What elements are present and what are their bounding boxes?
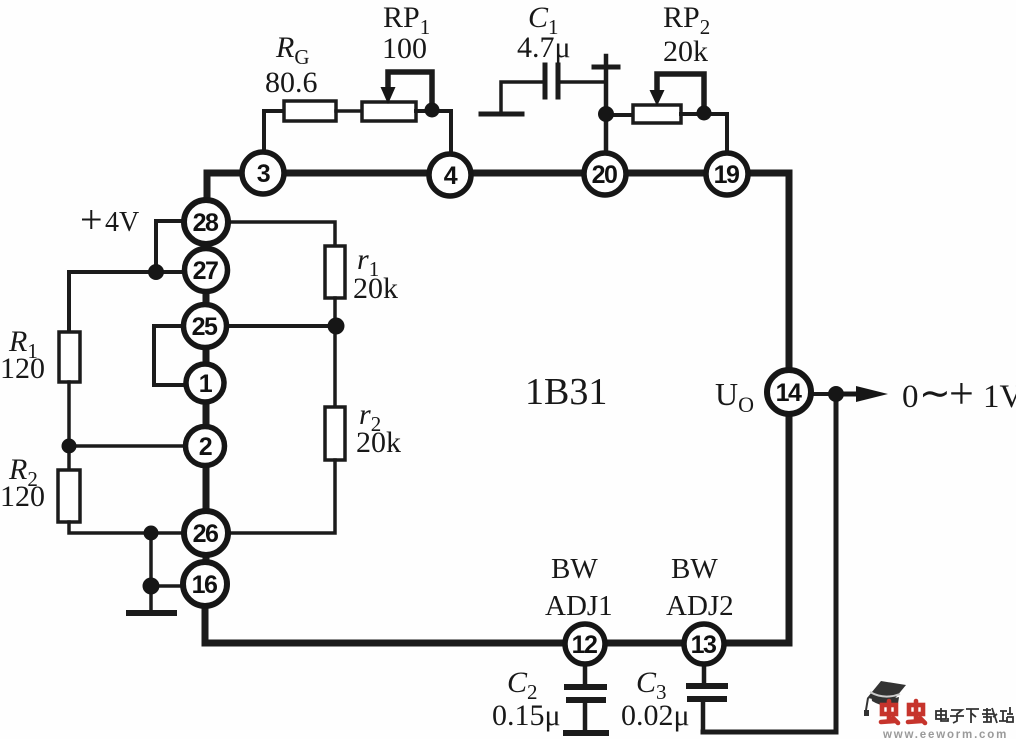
svg-text:2: 2 <box>199 433 212 461</box>
svg-text:+: + <box>80 197 103 242</box>
svg-text:4V: 4V <box>105 207 139 238</box>
pin 27 <box>185 249 228 292</box>
wire pin27 left to R1 top <box>69 272 190 332</box>
svg-text:www.eeworm.com: www.eeworm.com <box>882 729 1008 739</box>
svg-text:0.02μ: 0.02μ <box>621 699 690 732</box>
svg-text:UO: UO <box>715 376 754 417</box>
svg-text:80.6: 80.6 <box>265 66 318 99</box>
wire pin28 left to +4V junction <box>156 221 188 268</box>
svg-text:3: 3 <box>257 160 270 188</box>
svg-text:20: 20 <box>592 161 617 189</box>
svg-text:4: 4 <box>444 162 458 190</box>
svg-text:26: 26 <box>193 520 218 548</box>
svg-text:120: 120 <box>0 352 45 385</box>
svg-text:0.15μ: 0.15μ <box>492 699 561 732</box>
pin 1 <box>186 364 224 402</box>
capacitor C2 0.15u top lead <box>583 663 588 685</box>
node RP1 right <box>425 103 440 118</box>
wire pin28 right to r1 top <box>226 222 335 246</box>
pin 28 <box>184 200 228 244</box>
wire junction down to ground node <box>149 533 153 586</box>
resistor RG 80.6 <box>284 101 336 121</box>
potentiometer RP2 20k body <box>633 105 681 123</box>
capacitor C3 0.02u top lead <box>702 663 707 684</box>
wire node to R2 top <box>67 446 71 470</box>
svg-text:RP2: RP2 <box>663 1 710 39</box>
wire left column bus 28-27-25-1-2-26-16 <box>203 205 210 600</box>
wire r1 bottom to node to r2 top <box>333 298 337 407</box>
svg-text:28: 28 <box>193 209 219 237</box>
capacitor C1 input bar <box>481 112 522 117</box>
potentiometer RP1 100 body <box>362 102 416 121</box>
wire RP1 wiper loop <box>388 72 432 108</box>
wire top bus pins 3-4-20-19 <box>207 173 789 215</box>
resistor R2 120 <box>58 470 80 522</box>
pin 26 <box>184 511 228 555</box>
svg-text:0: 0 <box>902 379 919 415</box>
svg-text:12: 12 <box>572 631 597 659</box>
wire right vertical bus 19 to 14 to 13 <box>205 173 789 643</box>
wire r2 bottom to pin26 <box>226 460 335 533</box>
wire C2 bottom lead <box>583 700 588 731</box>
ground bar C2 <box>566 730 606 736</box>
capacitor C2 plates <box>567 684 604 690</box>
capacitor C1 plates <box>543 65 548 97</box>
watermark site name glyphs <box>936 707 1013 723</box>
wire RG to RP1 <box>336 109 362 113</box>
node R2/pin26 <box>144 526 159 541</box>
pin 19 <box>706 153 748 195</box>
pin number labels <box>192 160 802 659</box>
arrow output <box>856 386 888 402</box>
wire pin25-pin1 short loop <box>154 326 188 385</box>
node +4V junction <box>148 264 164 280</box>
wire RP2 right to pin19 <box>681 114 727 155</box>
svg-text:20k: 20k <box>353 272 398 305</box>
wire RP2 wiper loop <box>657 74 704 110</box>
wire R1 bottom to node <box>67 382 71 446</box>
resistor r1 20k <box>325 246 345 298</box>
wire output feedback down <box>703 394 836 732</box>
pin 13 <box>684 624 724 664</box>
wire node to RP2 left <box>606 113 633 117</box>
svg-text:+: + <box>949 369 974 418</box>
svg-text:16: 16 <box>192 571 217 599</box>
wire node to pin2 <box>69 444 188 448</box>
wire C1 right lead <box>558 80 605 84</box>
pin 2 <box>186 427 225 466</box>
node output <box>828 386 844 402</box>
wire pin14 to output node <box>811 392 836 396</box>
pin 3 <box>242 152 284 194</box>
wire R2 bottom to pin26 <box>69 522 188 533</box>
svg-text:RG: RG <box>275 31 310 69</box>
watermark logo graduation cap <box>864 681 906 716</box>
pin 14 <box>767 370 811 414</box>
ground <box>129 610 174 616</box>
node C1/pin20 <box>598 106 614 122</box>
node RP2 right <box>697 106 712 121</box>
svg-text:∼: ∼ <box>919 373 951 415</box>
pin 4 <box>429 154 471 196</box>
svg-text:1: 1 <box>199 370 213 398</box>
wire ground node down <box>149 586 153 612</box>
pin 20 <box>584 153 626 195</box>
wire pin3 up to RG <box>264 111 284 155</box>
capacitor C3 plates <box>689 683 725 689</box>
pin 12 <box>565 624 605 664</box>
wire pin25 right to node r1/r2 <box>224 324 336 328</box>
svg-text:13: 13 <box>691 631 716 659</box>
wire C3 bottom lead <box>701 699 706 732</box>
svg-text:BW: BW <box>671 553 718 585</box>
wire ground node to pin16 <box>151 584 186 588</box>
pin 16 <box>183 562 227 606</box>
wire C1 left lead <box>501 82 543 114</box>
svg-text:14: 14 <box>776 379 802 407</box>
svg-text:1V: 1V <box>983 379 1016 415</box>
svg-text:27: 27 <box>193 257 218 285</box>
wire RP1 right to pin4 <box>416 111 451 156</box>
svg-text:ADJ2: ADJ2 <box>666 590 734 622</box>
arrowhead RP1 wiper <box>381 87 396 104</box>
pin circles <box>183 152 811 664</box>
svg-text:4.7μ: 4.7μ <box>517 31 571 64</box>
svg-text:1B31: 1B31 <box>525 371 607 413</box>
svg-text:100: 100 <box>382 32 427 65</box>
node R1/R2/pin2 <box>62 439 77 454</box>
plus polarity mark <box>594 65 618 70</box>
svg-text:25: 25 <box>192 313 218 341</box>
pin 25 <box>184 305 227 348</box>
svg-text:ADJ1: ADJ1 <box>545 590 613 622</box>
watermark chongchong red characters <box>881 701 925 723</box>
svg-text:20k: 20k <box>663 35 708 68</box>
wire vertical into pin20 with + mark <box>604 56 609 156</box>
svg-text:20k: 20k <box>356 426 401 459</box>
node r1/r2/pin25 <box>328 318 345 335</box>
resistor r2 20k <box>325 407 345 460</box>
node ground/pin16 <box>143 578 160 595</box>
resistor R1 120 <box>59 332 80 382</box>
svg-text:120: 120 <box>0 480 45 513</box>
svg-text:BW: BW <box>551 553 598 585</box>
svg-text:19: 19 <box>714 161 739 189</box>
arrowhead RP2 wiper <box>650 90 665 106</box>
